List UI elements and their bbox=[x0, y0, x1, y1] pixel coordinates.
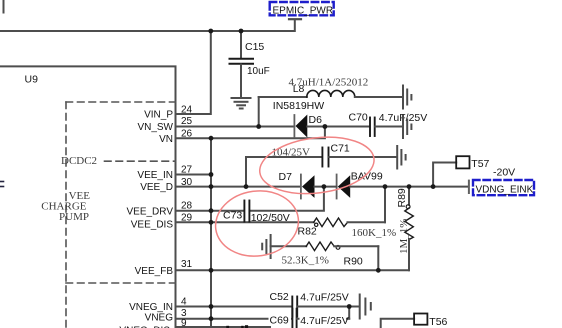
capacitor C71 bbox=[246, 142, 396, 186]
pin 31 VEE_FB bbox=[135, 259, 409, 277]
pin 30 VEE_D bbox=[140, 177, 300, 193]
power symbol EPMIC_PWR bbox=[270, 2, 334, 19]
svg-text:1M_1%: 1M_1% bbox=[398, 219, 410, 254]
svg-text:PUMP: PUMP bbox=[59, 211, 89, 223]
capacitor C52 bbox=[270, 291, 360, 317]
pin 25 VN_SW bbox=[137, 116, 294, 133]
pin 27 VEE_IN bbox=[137, 165, 211, 182]
pin 3 VNEG bbox=[145, 308, 292, 324]
svg-text:VNEG: VNEG bbox=[145, 313, 174, 324]
svg-text:102/50V: 102/50V bbox=[251, 212, 290, 224]
svg-text:25: 25 bbox=[181, 116, 193, 127]
svg-text:28: 28 bbox=[181, 201, 193, 212]
svg-text:VEE_IN: VEE_IN bbox=[137, 170, 173, 181]
ground (C52, rotated right) bbox=[360, 295, 371, 319]
svg-text:D6: D6 bbox=[309, 114, 323, 126]
svg-text:VN: VN bbox=[159, 134, 173, 145]
svg-text:29: 29 bbox=[181, 213, 193, 224]
svg-text:C73: C73 bbox=[223, 209, 242, 221]
dashed block boundary (DCDC2 top) bbox=[66, 101, 176, 103]
capacitor C70 bbox=[307, 111, 427, 136]
wire: R90 right end down to VEE_FB line bbox=[377, 246, 379, 270]
inductor L8 bbox=[259, 76, 402, 126]
ground (L8 output, rotated right) bbox=[403, 86, 411, 109]
svg-text:160K_1%: 160K_1% bbox=[352, 227, 397, 239]
svg-text:DCDC2: DCDC2 bbox=[61, 155, 97, 167]
svg-text:VNEG_IN: VNEG_IN bbox=[129, 302, 173, 313]
diode D6 bbox=[273, 100, 324, 138]
dashed block boundary (charge pump bottom) bbox=[66, 282, 176, 284]
svg-text:30: 30 bbox=[181, 177, 193, 188]
svg-text:C71: C71 bbox=[331, 142, 350, 154]
svg-text:31: 31 bbox=[181, 259, 193, 270]
red markup ellipse around 104/25V C71 D7 bbox=[256, 131, 377, 200]
pin 9 VNEG_DIS bbox=[119, 318, 270, 328]
svg-text:R89: R89 bbox=[396, 188, 408, 207]
pin 28 VEE_DRV bbox=[126, 201, 243, 218]
svg-text:R90: R90 bbox=[344, 255, 363, 267]
capacitor C73 bbox=[223, 201, 290, 225]
wire: vertical bus x=211 joining pins 26,27,28,29,31,4,3,9 bbox=[210, 138, 212, 328]
connector T56 bbox=[381, 314, 448, 328]
connector T57 bbox=[433, 156, 489, 186]
resistor R82 bbox=[298, 218, 397, 239]
capacitor C69 bbox=[269, 309, 350, 328]
wire: R82 right end up to VEE_D node bbox=[384, 187, 386, 223]
svg-text:VN_SW: VN_SW bbox=[137, 122, 173, 133]
pin 26 VN bbox=[159, 127, 325, 145]
svg-text:VEE_D: VEE_D bbox=[140, 182, 173, 193]
capacitor C15 bbox=[230, 31, 270, 98]
wire: node between D7 and BAV99 down to C73 bbox=[250, 187, 324, 211]
svg-text:VEE_DIS: VEE_DIS bbox=[131, 219, 174, 230]
svg-text:4.7uH/1A/252012: 4.7uH/1A/252012 bbox=[289, 76, 369, 88]
pin 29 VEE_DIS bbox=[131, 213, 314, 231]
svg-text:VEE_FB: VEE_FB bbox=[135, 266, 174, 277]
diode D7 bbox=[279, 171, 315, 198]
svg-text:4: 4 bbox=[181, 297, 187, 308]
wire: stub top-left edge bbox=[3, 0, 5, 13]
svg-text:26: 26 bbox=[181, 128, 193, 139]
svg-text:IN5819HW: IN5819HW bbox=[273, 100, 324, 112]
svg-text:U9: U9 bbox=[25, 74, 39, 86]
wire: EPMIC power rail bbox=[0, 20, 295, 31]
svg-text:EPMIC_PWR: EPMIC_PWR bbox=[273, 5, 334, 16]
svg-text:10uF: 10uF bbox=[247, 66, 270, 77]
svg-text:-20V: -20V bbox=[493, 166, 515, 178]
dashed block boundary (left vertical) bbox=[65, 102, 67, 328]
resistor R89 (vertical) bbox=[396, 187, 413, 271]
svg-text:C52: C52 bbox=[270, 291, 289, 303]
ground (R90 left, rotated left) bbox=[262, 235, 270, 258]
dashed block boundary (DCDC2 bottom) bbox=[105, 160, 176, 162]
svg-text:BAV99: BAV99 bbox=[351, 170, 383, 182]
svg-text:52.3K_1%: 52.3K_1% bbox=[282, 255, 329, 267]
svg-text:D7: D7 bbox=[279, 171, 293, 183]
svg-text:C70: C70 bbox=[349, 111, 368, 123]
svg-text:T56: T56 bbox=[429, 316, 447, 328]
svg-text:C15: C15 bbox=[245, 41, 264, 53]
section label VEE CHARGE PUMP bbox=[41, 190, 90, 223]
cut-off text at bottom edge bbox=[226, 325, 248, 328]
svg-text:4.7uF/25V: 4.7uF/25V bbox=[300, 291, 348, 303]
resistor R90 bbox=[271, 242, 379, 267]
wire: C52 node down to C69 output bbox=[348, 307, 350, 319]
svg-text:24: 24 bbox=[181, 105, 193, 116]
svg-text:C69: C69 bbox=[270, 314, 289, 326]
svg-text:T57: T57 bbox=[471, 158, 489, 170]
pin 24 VIN_P bbox=[144, 31, 211, 121]
svg-text:27: 27 bbox=[181, 165, 193, 176]
svg-text:R82: R82 bbox=[298, 225, 317, 237]
svg-text:VIN_P: VIN_P bbox=[144, 110, 173, 121]
diode BAV99 bbox=[315, 170, 469, 198]
svg-text:4.7uF/25V: 4.7uF/25V bbox=[300, 315, 348, 327]
U9 box (top edge + right edge) bbox=[0, 66, 176, 328]
svg-text:VEE_DRV: VEE_DRV bbox=[126, 206, 173, 217]
ground (C71, rotated right) bbox=[397, 146, 405, 169]
svg-text:VDNG_EINK: VDNG_EINK bbox=[476, 185, 534, 196]
svg-text:9: 9 bbox=[181, 318, 187, 328]
ground (C15) bbox=[232, 98, 251, 109]
ground (C70, rotated right) bbox=[403, 116, 411, 139]
red markup ellipse around C73 102/50V bbox=[211, 186, 302, 262]
cut text mark at left edge bbox=[0, 182, 4, 187]
pin 4 VNEG_IN bbox=[129, 297, 291, 313]
off-page flag VDNG_EINK bbox=[469, 180, 534, 196]
